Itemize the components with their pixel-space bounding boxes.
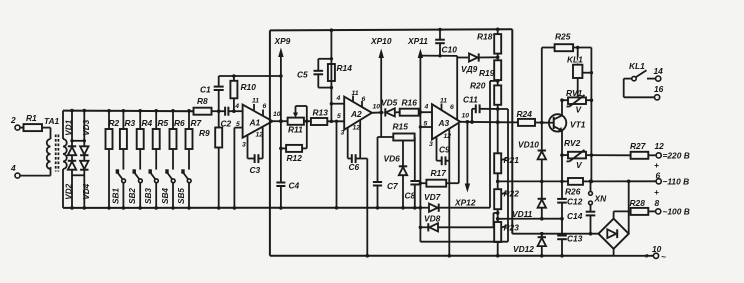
svg-text:+: +: [654, 187, 659, 197]
svg-text:R3: R3: [125, 118, 136, 128]
svg-text:R5: R5: [158, 118, 169, 128]
svg-text:R6: R6: [174, 118, 185, 128]
wire A2 pin4: [331, 103, 344, 105]
svg-text:XP9: XP9: [274, 36, 291, 46]
svg-text:R7: R7: [191, 118, 202, 128]
wire C9 loop to bottom rail: [448, 161, 450, 256]
svg-text:6: 6: [450, 104, 454, 111]
svg-text:SB5: SB5: [177, 188, 186, 204]
op-amp A2: [344, 97, 372, 130]
svg-text:C9: C9: [439, 145, 450, 155]
wire top bus left section: [63, 110, 194, 113]
svg-text:R27: R27: [630, 141, 646, 151]
svg-text:10: 10: [373, 104, 381, 111]
svg-text:C14: C14: [567, 211, 583, 221]
svg-text:C5: C5: [297, 70, 308, 80]
svg-text:R19: R19: [479, 68, 495, 78]
wire bottom bus of unit: [270, 255, 614, 257]
wire bottom bus left section (ground): [63, 207, 420, 209]
wire A3 pin5: [420, 126, 432, 128]
node R13/A2 feedback: [330, 120, 334, 124]
svg-text:C8: C8: [405, 191, 416, 201]
svg-text:8: 8: [655, 198, 660, 208]
node C1/R9: [217, 109, 221, 113]
wire C10 line: [420, 55, 457, 57]
resistor R21: [502, 159, 507, 161]
wire A2 pin5 ground column: [336, 121, 338, 208]
svg-text:+: +: [654, 160, 659, 170]
svg-text:TA1: TA1: [44, 116, 60, 126]
wire top bus of unit: [270, 29, 512, 30]
resistor R23: [502, 226, 507, 228]
svg-text:R25: R25: [555, 32, 571, 42]
svg-text:R10: R10: [241, 82, 257, 92]
svg-text:R24: R24: [517, 109, 533, 119]
svg-text:R14: R14: [337, 63, 353, 73]
wire bottom loop line: [420, 241, 508, 243]
svg-text:4: 4: [10, 163, 16, 173]
svg-text:R1: R1: [26, 113, 37, 123]
op-amp A1: [243, 105, 273, 138]
svg-text:V: V: [576, 160, 583, 170]
svg-text:10: 10: [462, 113, 470, 120]
svg-text:RV2: RV2: [564, 138, 581, 148]
wire VD8 jog: [493, 213, 495, 227]
wire -110V rail: [498, 180, 568, 182]
svg-text:A3: A3: [438, 118, 450, 128]
svg-text:C13: C13: [567, 234, 583, 244]
svg-text:16: 16: [654, 84, 664, 94]
svg-text:VД9: VД9: [461, 64, 478, 74]
svg-text:R15: R15: [393, 122, 409, 132]
svg-text:XN: XN: [594, 194, 608, 204]
wire right edge of unit: [511, 29, 513, 234]
svg-text:C4: C4: [289, 181, 300, 191]
svg-text:11: 11: [440, 98, 447, 105]
wire mid tie rail: [498, 218, 562, 220]
resistor R22: [502, 193, 507, 195]
svg-text:XP10: XP10: [370, 36, 392, 46]
wire tie VD2-VD4: [72, 174, 84, 176]
svg-text:R16: R16: [402, 98, 418, 108]
svg-text:C10: C10: [442, 45, 458, 55]
svg-text:4: 4: [424, 104, 429, 111]
svg-text:R20: R20: [470, 81, 486, 91]
wire emitter column: [561, 131, 563, 182]
svg-text:KL1: KL1: [629, 61, 645, 71]
svg-text:C1: C1: [200, 85, 211, 95]
svg-text:VD12: VD12: [513, 244, 534, 254]
svg-text:V: V: [576, 105, 583, 115]
wire C11 loop down: [507, 109, 509, 242]
svg-text:SB4: SB4: [161, 188, 170, 204]
node top VD3 column: [83, 109, 87, 113]
svg-text:R23: R23: [504, 223, 520, 233]
svg-text:R4: R4: [142, 118, 153, 128]
svg-text:=220 В: =220 В: [663, 151, 690, 161]
svg-text:VD11: VD11: [512, 209, 533, 219]
svg-text:R22: R22: [504, 189, 520, 199]
svg-text:R18: R18: [477, 32, 493, 42]
svg-text:R17: R17: [431, 168, 447, 178]
op-amp A3: [432, 104, 460, 139]
svg-text:C7: C7: [387, 181, 398, 191]
svg-text:5: 5: [337, 113, 341, 120]
svg-text:VT1: VT1: [570, 120, 586, 130]
svg-text:R21: R21: [504, 155, 520, 165]
svg-text:C3: C3: [250, 165, 261, 175]
svg-text:R12: R12: [287, 153, 303, 163]
svg-text:C11: C11: [463, 95, 478, 105]
svg-text:R26: R26: [565, 187, 581, 197]
bridge rectifier: [599, 219, 629, 249]
svg-text:~100 В: ~100 В: [663, 207, 690, 217]
node top VD1 column: [70, 109, 74, 113]
svg-text:14: 14: [654, 66, 664, 76]
svg-text:KL1: KL1: [567, 55, 583, 65]
svg-text:R9: R9: [199, 128, 210, 138]
svg-text:4: 4: [234, 103, 239, 110]
svg-text:VD10: VD10: [518, 140, 539, 150]
svg-text:VD6: VD6: [384, 154, 401, 164]
svg-text:−110 В: −110 В: [663, 177, 690, 187]
svg-text:3: 3: [341, 130, 345, 137]
wire lower tie rail: [512, 233, 598, 235]
svg-text:SB3: SB3: [144, 188, 153, 204]
wire XP11 column lower: [419, 112, 421, 242]
svg-text:SB2: SB2: [128, 188, 137, 204]
svg-text:R2: R2: [109, 118, 120, 128]
svg-text:2: 2: [10, 115, 16, 125]
wire C6 loop to bottom rail: [360, 158, 367, 160]
svg-text:4: 4: [336, 95, 341, 102]
node bottom VD columns: [70, 206, 74, 210]
svg-text:SB1: SB1: [111, 188, 120, 204]
wire to A3 pin6: [456, 56, 458, 120]
wire collector column: [561, 100, 563, 115]
wire tie VD1-VD3: [72, 140, 84, 142]
svg-text:10: 10: [273, 111, 281, 118]
wire R19/R20 tap: [490, 80, 498, 82]
svg-text:A1: A1: [249, 118, 261, 128]
svg-text:XP11: XP11: [407, 36, 428, 46]
svg-text:VD4: VD4: [82, 183, 91, 199]
svg-text:VD5: VD5: [381, 98, 398, 108]
wire bridge to R28: [613, 211, 615, 218]
svg-text:C12: C12: [567, 197, 583, 207]
wire bridge bottom to terminal 10: [613, 249, 615, 256]
wire A1 feedback top: [219, 75, 281, 77]
svg-text:11: 11: [252, 98, 259, 105]
wire A2 feedback column: [330, 30, 332, 121]
node XP11/R16: [419, 110, 423, 114]
svg-text:3: 3: [429, 141, 433, 148]
svg-text:VD8: VD8: [424, 214, 441, 224]
svg-text:R8: R8: [197, 96, 208, 106]
svg-text:C6: C6: [349, 162, 360, 172]
svg-text:R11: R11: [288, 125, 303, 135]
svg-text:R28: R28: [630, 198, 646, 208]
svg-text:12: 12: [655, 141, 665, 151]
node A2 output: [372, 111, 384, 113]
node A3 output: [460, 121, 518, 124]
svg-text:3: 3: [242, 142, 246, 149]
svg-text:~: ~: [661, 252, 666, 262]
wire pin5 A1 to ground: [234, 127, 242, 129]
svg-text:VD3: VD3: [82, 119, 91, 135]
node A1 output: [279, 119, 283, 123]
svg-text:R13: R13: [313, 108, 329, 118]
relay coil KL1: [577, 48, 579, 65]
svg-text:XP12: XP12: [454, 198, 476, 208]
wire R17 to output: [458, 124, 460, 184]
wire -110V to terminal: [591, 180, 656, 182]
svg-text:6: 6: [263, 103, 267, 110]
svg-text:12: 12: [353, 125, 361, 132]
wire left edge of unit: [269, 30, 271, 255]
svg-text:VD7: VD7: [424, 192, 441, 202]
wire bridge right vertex to -110 rail: [628, 181, 630, 233]
svg-text:A2: A2: [350, 109, 362, 119]
